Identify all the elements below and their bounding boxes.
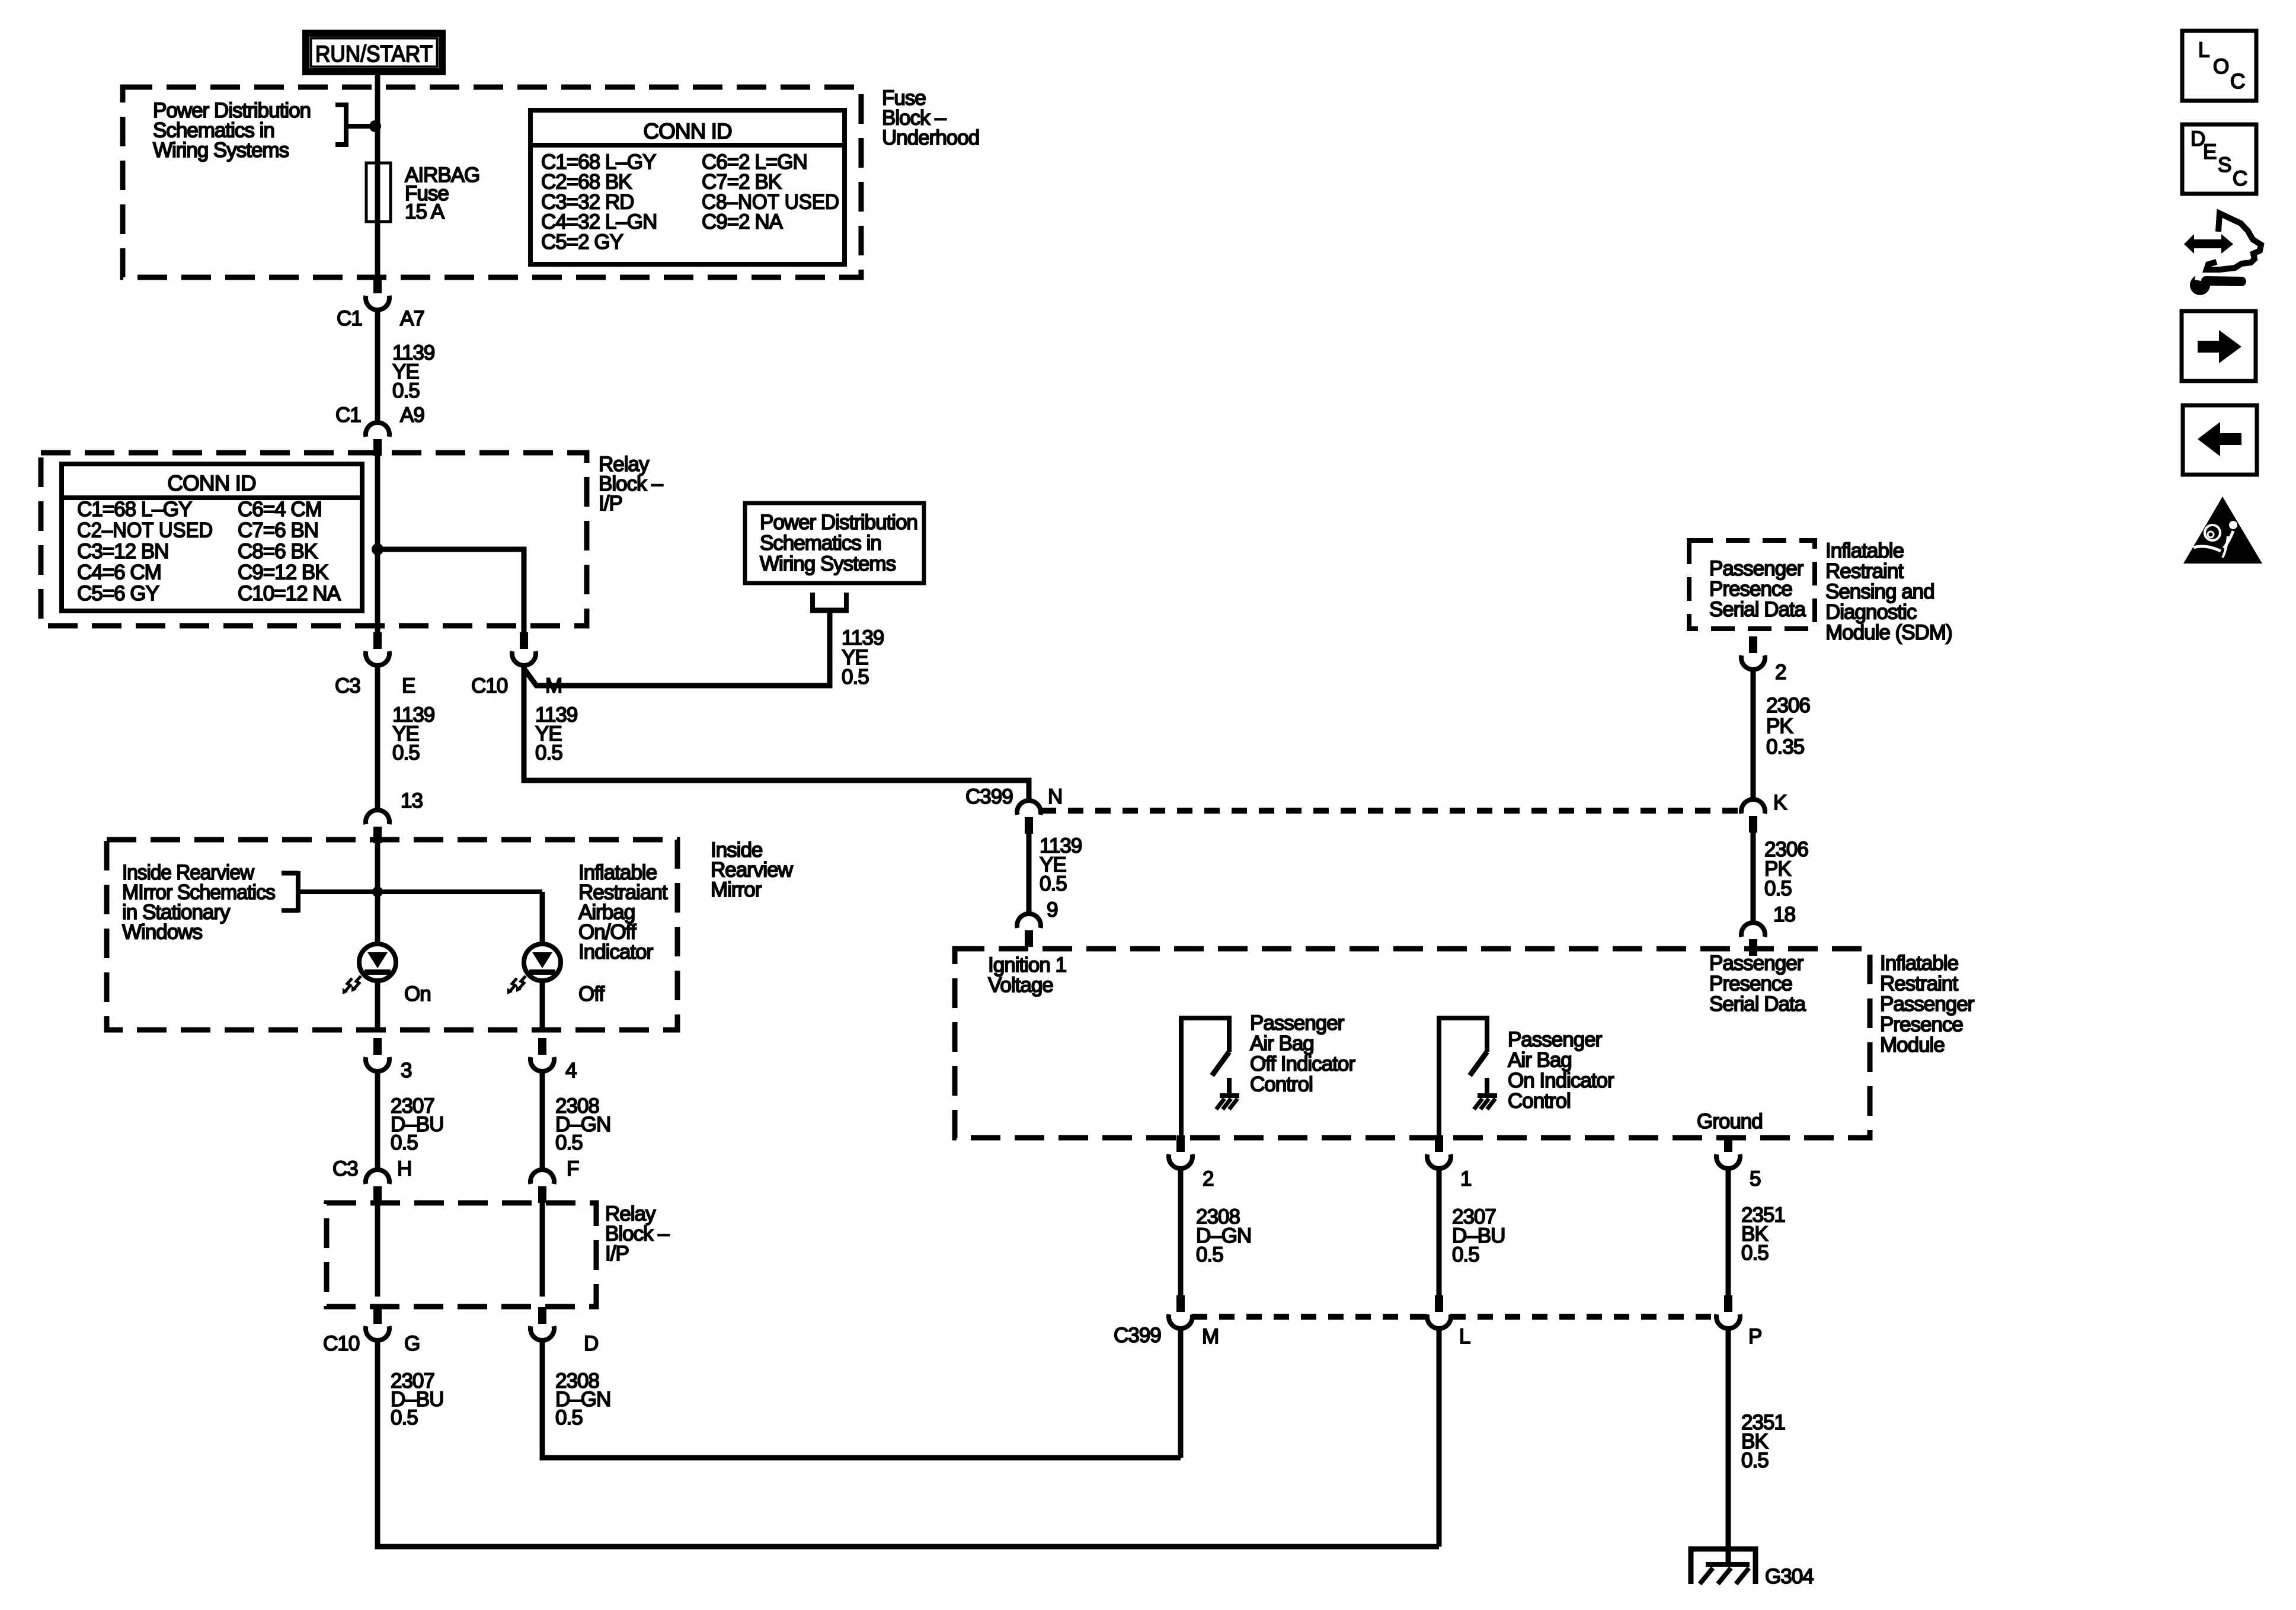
svg-text:3: 3 [401,1059,411,1082]
svg-text:CONN ID: CONN ID [643,119,731,143]
svg-text:A7: A7 [400,307,424,330]
svg-text:C1: C1 [335,404,361,427]
svg-text:F: F [567,1157,578,1180]
svg-text:H: H [397,1157,411,1180]
svg-text:C1: C1 [337,307,362,330]
svg-text:C6=4 CM: C6=4 CM [238,498,322,521]
svg-text:Inflatable: Inflatable [1880,952,1958,975]
svg-text:Passenger: Passenger [1250,1012,1345,1035]
svg-text:PK: PK [1766,715,1793,738]
svg-text:C10: C10 [323,1332,360,1355]
svg-text:0.5: 0.5 [1741,1241,1769,1265]
svg-text:Serial Data: Serial Data [1709,598,1806,621]
svg-text:0.5: 0.5 [392,379,420,402]
svg-text:0.35: 0.35 [1766,735,1804,758]
svg-text:Control: Control [1250,1073,1313,1096]
svg-text:C10: C10 [471,674,508,697]
svg-text:13: 13 [401,789,423,812]
svg-text:A9: A9 [400,404,424,427]
svg-text:M: M [1202,1325,1219,1348]
svg-text:Presence: Presence [1709,578,1792,601]
svg-text:5: 5 [1750,1167,1760,1190]
svg-text:Diagnostic: Diagnostic [1825,601,1917,624]
svg-text:C10=12 NA: C10=12 NA [238,582,341,605]
svg-text:N: N [1048,785,1062,808]
svg-text:C8=6 BK: C8=6 BK [238,540,318,563]
svg-text:0.5: 0.5 [1764,877,1792,900]
svg-text:C: C [2233,167,2247,190]
svg-text:Passenger: Passenger [1508,1028,1603,1051]
svg-text:Passenger: Passenger [1709,557,1804,580]
svg-text:2306: 2306 [1766,694,1810,717]
svg-text:L: L [2198,39,2209,62]
svg-text:I/P: I/P [599,492,622,515]
svg-text:0.5: 0.5 [391,1131,418,1154]
svg-text:Off Indicator: Off Indicator [1250,1052,1355,1076]
svg-text:E: E [2203,140,2216,164]
svg-text:C5=6 GY: C5=6 GY [77,582,159,605]
svg-text:Sensing and: Sensing and [1825,580,1934,603]
svg-text:Voltage: Voltage [988,974,1053,997]
svg-text:L: L [1459,1325,1470,1348]
svg-text:S: S [2218,153,2231,177]
svg-text:0.5: 0.5 [1741,1449,1769,1472]
svg-text:Control: Control [1508,1090,1571,1113]
svg-text:Presence: Presence [1880,1013,1963,1036]
svg-text:Presence: Presence [1709,972,1792,996]
svg-text:0.5: 0.5 [391,1406,418,1429]
svg-text:0.5: 0.5 [555,1406,583,1429]
svg-text:C2–NOT USED: C2–NOT USED [77,519,213,542]
svg-text:D: D [584,1332,598,1355]
svg-text:0.5: 0.5 [535,741,562,764]
svg-text:Wiring Systems: Wiring Systems [760,552,896,575]
svg-text:E: E [402,674,415,697]
svg-text:C3: C3 [332,1157,358,1180]
svg-text:1: 1 [1460,1167,1471,1190]
svg-text:Serial Data: Serial Data [1709,993,1806,1016]
svg-text:C3=12 BN: C3=12 BN [77,540,168,563]
svg-text:Wiring Systems: Wiring Systems [153,139,289,162]
svg-text:0.5: 0.5 [1196,1243,1223,1266]
svg-text:Indicator: Indicator [578,940,654,964]
svg-text:C3: C3 [335,674,360,697]
svg-text:2: 2 [1203,1167,1213,1190]
svg-text:0.5: 0.5 [1040,872,1067,895]
svg-text:On: On [404,982,431,1006]
svg-text:Module (SDM): Module (SDM) [1825,621,1952,644]
svg-text:Passenger: Passenger [1709,952,1804,975]
svg-text:RUN/START: RUN/START [315,41,433,67]
svg-text:C5=2 GY: C5=2 GY [541,231,623,254]
svg-text:C4=6 CM: C4=6 CM [77,561,161,584]
svg-text:Windows: Windows [122,921,202,944]
svg-text:0.5: 0.5 [1452,1243,1479,1266]
svg-text:9: 9 [1047,898,1057,921]
svg-text:0.5: 0.5 [555,1131,583,1154]
svg-text:On Indicator: On Indicator [1508,1069,1614,1092]
svg-text:Restraint: Restraint [1825,560,1904,583]
svg-text:2: 2 [1775,661,1786,684]
svg-text:4: 4 [565,1059,577,1082]
svg-text:K: K [1773,791,1787,814]
svg-text:G304: G304 [1765,1565,1814,1588]
svg-text:CONN ID: CONN ID [167,471,255,495]
svg-text:C399: C399 [965,785,1013,808]
svg-text:Schematics in: Schematics in [760,532,881,555]
svg-text:Underhood: Underhood [882,126,979,149]
svg-text:Air Bag: Air Bag [1250,1032,1314,1055]
svg-text:O: O [2213,55,2228,78]
svg-text:Air Bag: Air Bag [1508,1049,1572,1072]
svg-text:I/P: I/P [605,1242,629,1265]
svg-text:0.5: 0.5 [392,741,420,764]
svg-text:Off: Off [578,982,605,1006]
svg-text:Restraint: Restraint [1880,972,1958,996]
svg-text:C7=6 BN: C7=6 BN [238,519,318,542]
svg-text:Inflatable: Inflatable [1825,539,1904,562]
svg-text:Power Distribution: Power Distribution [760,511,917,534]
svg-text:Mirror: Mirror [711,878,762,901]
svg-text:0.5: 0.5 [842,665,869,689]
svg-text:Ground: Ground [1697,1110,1763,1133]
svg-text:C9=2 NA: C9=2 NA [702,210,784,233]
svg-text:C399: C399 [1114,1324,1161,1347]
svg-text:G: G [404,1332,420,1355]
svg-text:15 A: 15 A [405,200,445,223]
svg-text:C9=12 BK: C9=12 BK [238,561,328,584]
svg-text:P: P [1748,1325,1761,1348]
svg-text:C: C [2230,70,2244,93]
svg-text:Module: Module [1880,1033,1945,1057]
svg-text:C1=68 L–GY: C1=68 L–GY [77,498,192,521]
svg-text:18: 18 [1773,903,1795,926]
svg-text:Passenger: Passenger [1880,993,1975,1016]
